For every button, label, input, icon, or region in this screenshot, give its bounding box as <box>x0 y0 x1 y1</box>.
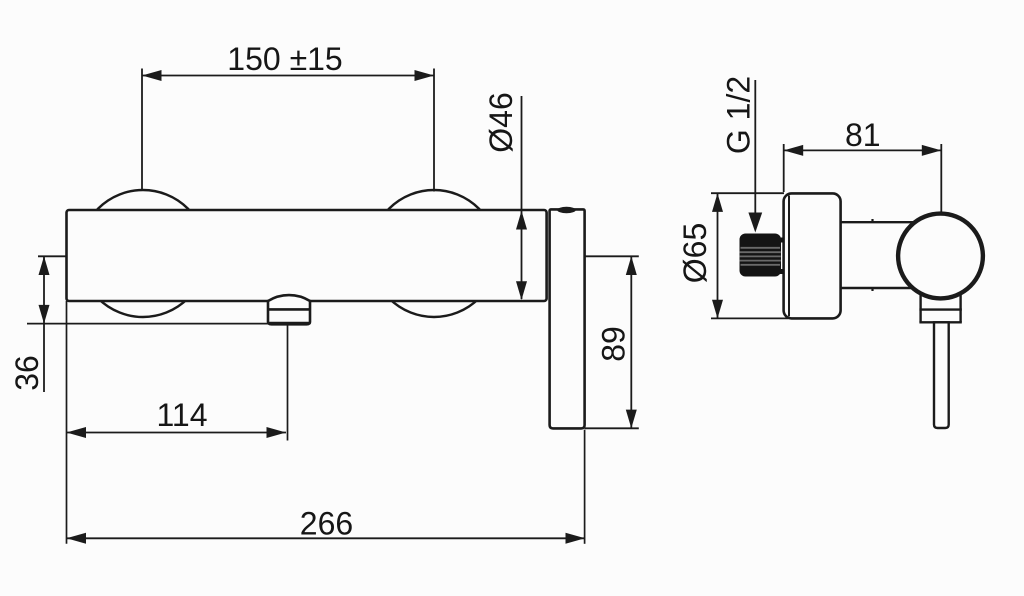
dim 81 line <box>784 149 942 151</box>
svg-text:36: 36 <box>9 355 45 391</box>
svg-text:G 1/2: G 1/2 <box>721 76 757 154</box>
dim 36 text <box>9 355 45 391</box>
escutcheon cap (side view) <box>784 193 841 318</box>
threaded connector G1/2 <box>740 234 785 277</box>
dim Ø65 line <box>717 193 719 318</box>
dim Ø65 top extension <box>711 192 784 194</box>
handle rod (side view) <box>934 322 949 428</box>
dim 36 line <box>43 256 45 392</box>
dim 81 left extension <box>783 144 785 192</box>
dim 114 line <box>67 432 287 434</box>
dim 150 ±15 line <box>142 75 434 77</box>
svg-text:114: 114 <box>156 397 207 433</box>
handle neck (side view) <box>919 295 961 323</box>
svg-text:81: 81 <box>845 117 881 153</box>
dim 89 bottom extension <box>585 427 639 429</box>
dim 150 ±15 extension line left <box>141 69 143 191</box>
dim Ø46 text <box>483 92 519 152</box>
body cylinder (side view) top line <box>841 221 913 223</box>
dim 89 text <box>596 326 632 362</box>
dim Ø65 bottom extension <box>711 317 789 319</box>
G 1/2 leader line <box>754 80 756 215</box>
dim 266 line <box>67 537 586 539</box>
svg-text:Ø46: Ø46 <box>483 92 519 152</box>
handle right extension line down <box>584 430 586 544</box>
lever handle (front view) <box>550 209 585 428</box>
knob circle (side view) <box>898 214 983 299</box>
cap inner edge line <box>788 196 790 317</box>
left flange circle 2 <box>371 190 498 317</box>
dim 89 top extension <box>585 255 639 257</box>
svg-text:89: 89 <box>596 326 632 362</box>
dim 36 bottom extension <box>27 323 268 325</box>
dim 89 line <box>630 256 632 428</box>
left flange circle 1 <box>80 190 207 317</box>
dim 150 ±15 extension line right <box>433 69 435 192</box>
svg-text:266: 266 <box>300 506 353 542</box>
faucet body (front view) <box>67 210 547 301</box>
cylinder tick marks <box>871 219 873 223</box>
G 1/2 text <box>721 76 757 154</box>
dim 81 right extension <box>940 144 942 213</box>
svg-text:Ø65: Ø65 <box>677 223 713 283</box>
spout <box>268 295 310 324</box>
handle button bump <box>557 207 576 213</box>
body cylinder (side view) bottom line <box>841 287 913 289</box>
dim 36 top extension <box>38 255 67 257</box>
svg-text:150 ±15: 150 ±15 <box>227 41 342 77</box>
dim Ø65 text <box>677 223 713 283</box>
dim Ø46 line <box>521 96 523 299</box>
left extension line (body edge down) <box>66 301 68 544</box>
spout centre extension line <box>287 325 289 441</box>
